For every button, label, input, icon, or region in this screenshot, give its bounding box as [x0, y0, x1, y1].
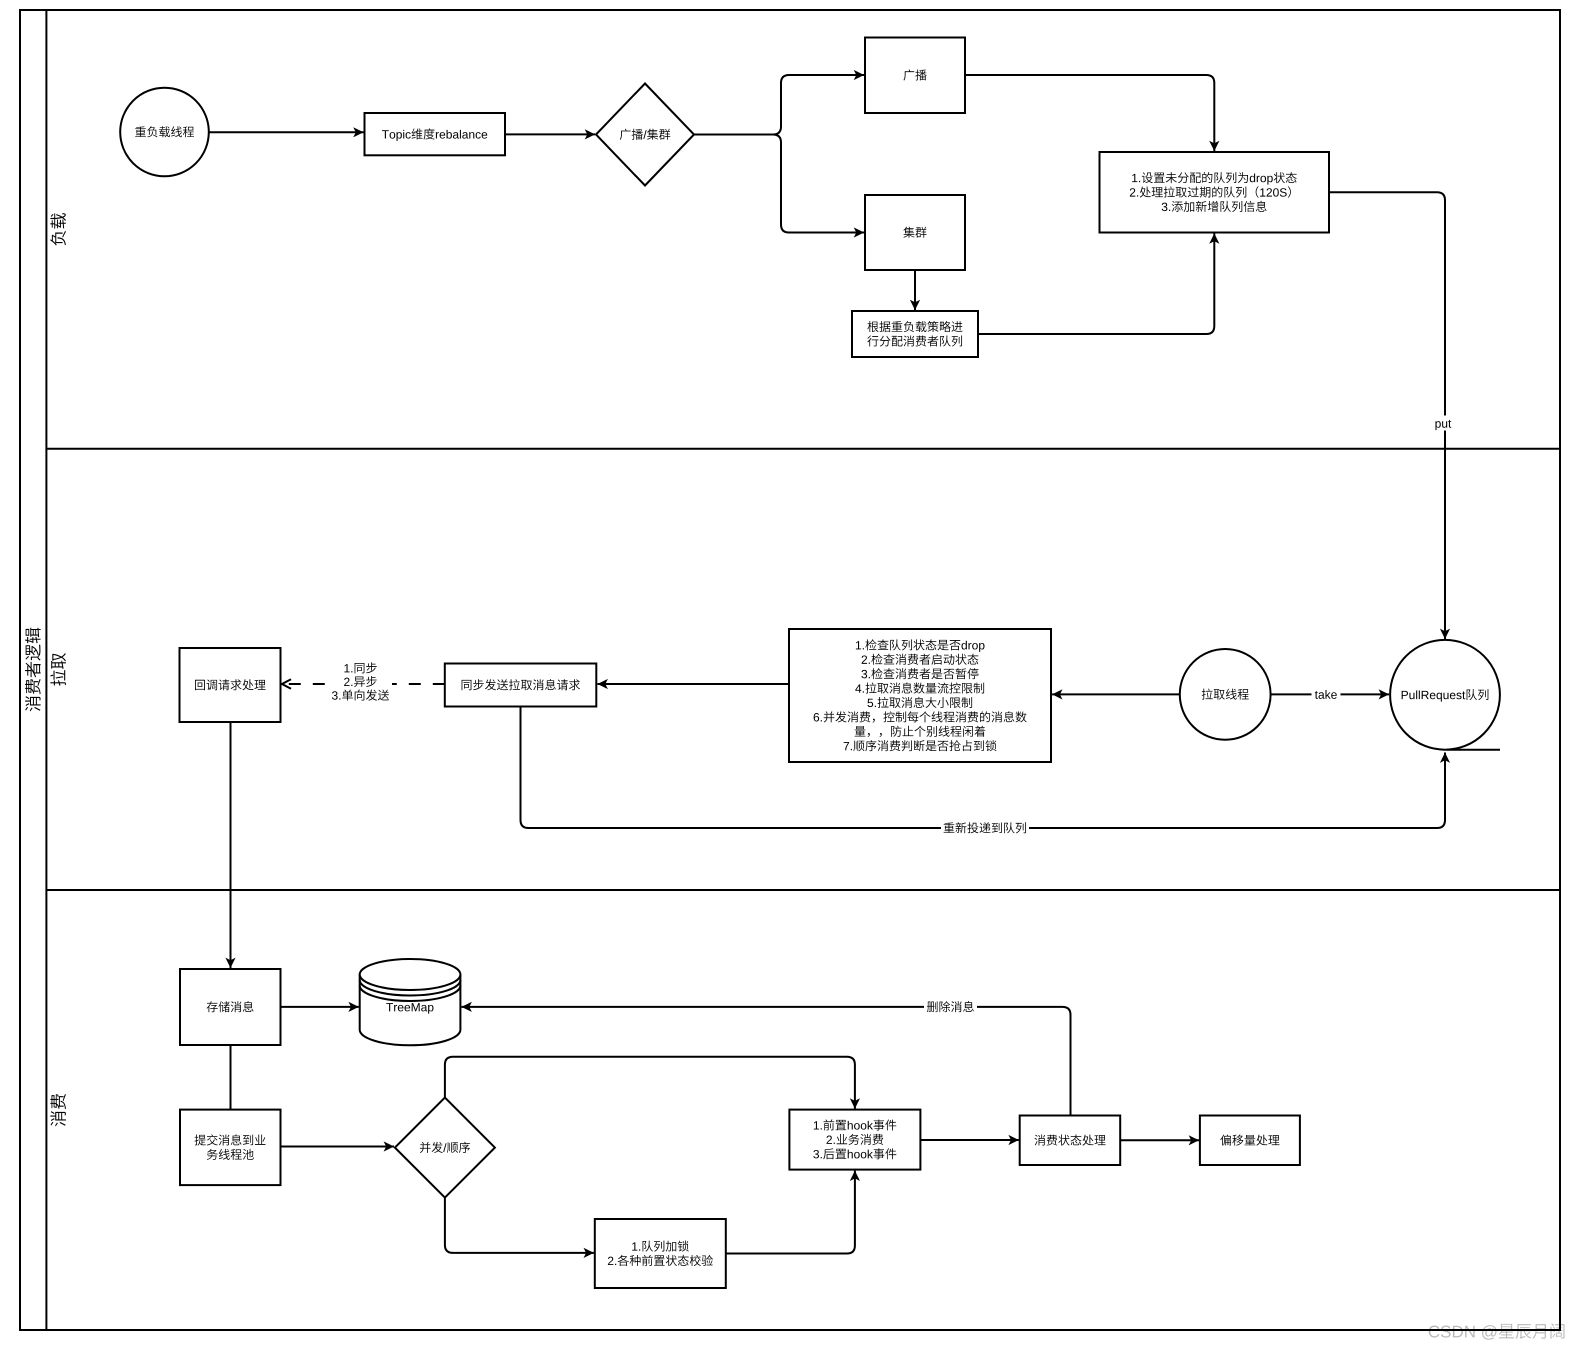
node rect 存储消息	[180, 969, 281, 1045]
lane title 拉取	[50, 653, 66, 686]
wire 广播/集群->广播	[694, 75, 864, 135]
label 2.异步	[344, 678, 349, 686]
node rect hook box	[789, 1110, 920, 1170]
label 消费状态处理	[1034, 1135, 1045, 1146]
label 7.顺序消费判断是否抢占到锁	[844, 742, 849, 750]
wire 并发/顺序->前置hook box (top)	[445, 1057, 855, 1109]
label 集群	[903, 227, 914, 238]
wire 集群->根据重负载策略	[914, 270, 916, 310]
node rect 队列加锁box	[595, 1219, 726, 1288]
node diamond 广播/集群	[596, 84, 694, 186]
wire 设置队列box->PullRequest队列 (put)	[1329, 192, 1445, 639]
wire 广播->设置队列box	[965, 75, 1214, 151]
label put	[1435, 421, 1440, 430]
label put bg	[1432, 416, 1455, 431]
wire 根据重负载策略->设置队列box	[978, 233, 1214, 334]
wire 回调请求处理->存储消息	[230, 722, 232, 968]
node diamond 并发/顺序	[395, 1098, 495, 1198]
pool title 消费者逻辑	[25, 628, 41, 712]
label 并发/顺序	[420, 1142, 431, 1153]
node rect 设置队列box	[1100, 152, 1330, 233]
lane divider 2	[46, 889, 1560, 891]
label 3.添加新增队列信息	[1162, 203, 1168, 211]
wire 重负载线程->Topic维度rebalance	[209, 131, 364, 133]
label 提交消息到业	[195, 1134, 206, 1145]
label 1.队列加锁	[632, 1242, 637, 1250]
wire 存储消息->TreeMap	[281, 1006, 359, 1008]
label 重新投递到队列 bg	[941, 821, 1029, 836]
lane divider 1	[46, 448, 1560, 450]
node rect 提交消息到业务线程池	[180, 1110, 281, 1186]
node rect 消费状态处理	[1020, 1116, 1120, 1166]
node rect 偏移量处理	[1200, 1116, 1300, 1166]
label PullRequest队列	[1402, 691, 1408, 699]
line under PullRequest队列	[1447, 749, 1500, 751]
wire 检查box->同步发送拉取消息请求	[598, 683, 790, 685]
label 存储消息	[207, 1001, 218, 1012]
label 1.前置hook事件	[814, 1121, 819, 1129]
label 重新投递到队列	[944, 822, 955, 833]
label 2.各种前置状态校验	[608, 1257, 613, 1265]
node rect 集群	[865, 195, 965, 270]
wire 拉取线程->检查box	[1052, 693, 1180, 695]
label 删除消息 bg	[924, 1000, 977, 1015]
wire 并发/顺序->队列加锁	[445, 1198, 594, 1253]
label 删除消息	[927, 1001, 938, 1012]
wire 广播/集群->集群	[773, 135, 864, 233]
lane title 消费	[50, 1094, 66, 1126]
label 拉取线程	[1202, 689, 1213, 700]
label 6.并发消费，控制每个线程消费的消息数	[814, 713, 820, 721]
label 根据重负载策略进	[867, 321, 878, 332]
wire 拉取线程->PullRequest队列 (take)	[1271, 693, 1389, 695]
wire 提交消息->并发/顺序	[281, 1146, 395, 1148]
label 3.后置hook事件	[813, 1150, 819, 1158]
node rect 同步发送拉取消息请求	[445, 664, 597, 707]
label 5.拉取消息大小限制	[867, 699, 873, 707]
label 回调请求处理	[195, 680, 205, 690]
label take	[1315, 691, 1318, 699]
label 广播/集群	[620, 129, 631, 140]
wire 消费状态处理->偏移量处理	[1120, 1139, 1199, 1141]
wire Topic维度rebalance->广播/集群	[505, 133, 595, 135]
node rect 回调请求处理	[180, 648, 281, 722]
lane title 负载	[50, 213, 66, 245]
label 2.检查消费者启动状态	[862, 655, 867, 663]
label 4.拉取消息数量流控限制	[855, 684, 861, 692]
node rect Topic维度rebalance	[365, 113, 506, 155]
label 量，，防止个别线程闲着	[855, 726, 866, 736]
label 1.设置未分配的队列为drop状态	[1132, 174, 1137, 182]
label 行分配消费者队列	[867, 335, 878, 346]
label take bg	[1312, 687, 1341, 702]
label 1.同步 2.异步 3.单向发送 bg	[329, 661, 392, 703]
wire hook box->消费状态处理	[920, 1139, 1018, 1141]
label 2.处理拉取过期的队列（120S）	[1130, 188, 1135, 196]
node rect 根据重负载策略	[852, 311, 978, 357]
node rect 广播	[865, 38, 965, 114]
wire 同步发送->PullRequest队列 (重新投递到队列)	[521, 707, 1446, 829]
node circle 拉取线程	[1180, 649, 1271, 740]
node cylinder TreeMap	[360, 975, 461, 1046]
label TreeMap	[386, 1003, 393, 1011]
node circle PullRequest队列	[1390, 640, 1500, 750]
wire 存储消息-提交消息 (plain)	[230, 1045, 232, 1110]
label 重负载线程	[135, 126, 146, 137]
node rect 检查box	[789, 629, 1051, 762]
label 3.单向发送	[332, 691, 338, 699]
pool title column line	[45, 10, 47, 1330]
label 2.业务消费	[827, 1136, 832, 1144]
label 广播	[903, 69, 914, 80]
wire 消费状态处理->TreeMap (删除消息)	[462, 1007, 1071, 1116]
wire 队列加锁->前置hook box (bottom)	[726, 1171, 855, 1254]
label Topic维度rebalance	[382, 130, 389, 138]
label 同步发送拉取消息请求	[462, 680, 472, 690]
label 偏移量处理	[1220, 1135, 1231, 1146]
label 1.同步	[344, 664, 349, 672]
node circle 重负载线程	[120, 88, 209, 177]
label 1.检查队列状态是否drop	[856, 641, 861, 649]
label 务线程池	[207, 1149, 218, 1160]
wire dashed 同步发送->回调请求处理	[282, 683, 445, 685]
watermark CSDN	[1429, 1323, 1565, 1339]
label 3.检查消费者是否暂停	[861, 670, 867, 678]
